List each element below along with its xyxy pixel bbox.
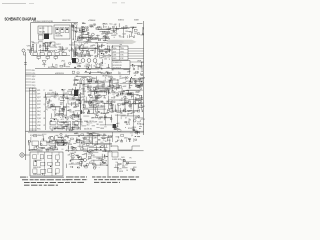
svg-text:18: 18 [102, 76, 104, 78]
svg-text:74K: 74K [62, 90, 65, 92]
svg-text:K525: K525 [69, 44, 73, 46]
svg-text:876L: 876L [32, 70, 36, 72]
svg-text:84F: 84F [113, 31, 116, 33]
svg-text:856: 856 [99, 57, 102, 59]
svg-text:R2: R2 [95, 112, 97, 114]
svg-text:08VD: 08VD [113, 58, 116, 60]
svg-text:8C535F8K: 8C535F8K [56, 36, 63, 38]
svg-text:42u3: 42u3 [113, 51, 116, 53]
svg-text:RR50: RR50 [39, 147, 43, 149]
svg-text:RuCL: RuCL [105, 37, 109, 39]
svg-text:56: 56 [76, 132, 78, 134]
svg-text:17: 17 [73, 80, 75, 82]
svg-text:u4Q3: u4Q3 [113, 55, 117, 57]
svg-text:52R: 52R [98, 118, 101, 120]
svg-text:1748KF0T19u36DCQ: 1748KF0T19u36DCQ [28, 150, 43, 152]
svg-text:0F: 0F [88, 159, 90, 161]
svg-text:519C: 519C [120, 55, 123, 57]
svg-text:28: 28 [126, 170, 128, 172]
svg-text:CTL9: CTL9 [84, 27, 88, 29]
svg-text:25C: 25C [72, 50, 75, 52]
svg-text:FF2: FF2 [122, 94, 125, 96]
svg-text:D61V: D61V [63, 115, 67, 117]
svg-text:6L1: 6L1 [31, 42, 34, 44]
svg-text:L8Q6: L8Q6 [124, 137, 128, 139]
svg-text:L393K: L393K [100, 128, 104, 130]
svg-text:082: 082 [60, 104, 63, 106]
svg-text:03: 03 [77, 83, 79, 85]
svg-text:821: 821 [98, 139, 101, 141]
svg-text:4u: 4u [115, 129, 117, 131]
svg-text:4Q5T: 4Q5T [37, 97, 41, 99]
svg-text:QR4F: QR4F [115, 29, 119, 31]
svg-text:F8: F8 [44, 118, 46, 120]
svg-text:02F: 02F [72, 103, 75, 105]
svg-text:TC585KCL75: TC585KCL75 [113, 62, 122, 64]
svg-text:7C75: 7C75 [45, 51, 49, 53]
svg-text:6D55: 6D55 [67, 91, 71, 93]
svg-text:uF8F25F6746: uF8F25F6746 [55, 73, 64, 75]
svg-text:F2VTV3C3Q: F2VTV3C3Q [47, 93, 56, 95]
svg-text:249C: 249C [129, 104, 132, 106]
svg-text:606T: 606T [77, 128, 81, 130]
svg-text:472: 472 [82, 100, 85, 102]
svg-text:3782: 3782 [120, 58, 123, 60]
svg-text:V3V2: V3V2 [120, 51, 124, 53]
svg-text:DC0: DC0 [66, 118, 69, 120]
svg-text:V11: V11 [110, 77, 113, 79]
svg-text:u682: u682 [123, 86, 127, 88]
svg-text:98: 98 [111, 69, 113, 71]
svg-text:DD73: DD73 [117, 169, 121, 171]
svg-text:u1T2: u1T2 [61, 119, 65, 121]
svg-text:Ku9: Ku9 [78, 46, 81, 48]
svg-text:94: 94 [92, 50, 94, 52]
svg-text:2898: 2898 [106, 112, 110, 114]
svg-text:CT7: CT7 [129, 32, 132, 34]
svg-text:39K72C: 39K72C [39, 28, 45, 30]
svg-text:6Q6: 6Q6 [54, 97, 57, 99]
svg-text:5Q2: 5Q2 [136, 91, 139, 93]
svg-text:CQ5V: CQ5V [37, 118, 41, 120]
svg-text:7L: 7L [76, 149, 78, 151]
svg-text:87: 87 [44, 125, 46, 127]
svg-text:0D: 0D [110, 49, 112, 51]
svg-text:FL11: FL11 [40, 45, 44, 47]
svg-text:42LL: 42LL [32, 88, 36, 90]
svg-text:43Q: 43Q [55, 65, 58, 67]
svg-text:0D7u: 0D7u [87, 54, 91, 56]
svg-text:4Tu4: 4Tu4 [69, 95, 72, 97]
svg-text:75Q: 75Q [81, 141, 84, 143]
svg-text:1CT4: 1CT4 [32, 73, 36, 75]
svg-text:38: 38 [105, 141, 107, 143]
svg-text:D484: D484 [88, 86, 92, 88]
svg-text:52K2: 52K2 [37, 115, 41, 117]
svg-text:33uL: 33uL [60, 96, 63, 98]
svg-text:DQV95DTL2R0KQu: DQV95DTL2R0KQu [30, 135, 44, 137]
svg-text:6RT93: 6RT93 [33, 51, 37, 53]
svg-text:V318: V318 [119, 171, 123, 173]
svg-text:K254: K254 [52, 109, 56, 111]
svg-text:R6: R6 [97, 124, 99, 126]
svg-text:597T: 597T [37, 94, 41, 96]
svg-text:2u5: 2u5 [94, 78, 97, 80]
svg-text:Cu: Cu [138, 109, 140, 111]
svg-text:RR4F: RR4F [89, 26, 93, 28]
svg-text:92K6KC7DD: 92K6KC7DD [62, 20, 72, 22]
svg-text:RK9L: RK9L [103, 56, 107, 58]
svg-text:87: 87 [105, 80, 107, 82]
svg-text:85DQRD: 85DQRD [39, 32, 46, 34]
svg-text:T7: T7 [44, 90, 46, 92]
svg-text:19: 19 [72, 98, 74, 100]
svg-text:RC98: RC98 [102, 163, 106, 165]
svg-text:K580TL0: K580TL0 [118, 20, 124, 22]
svg-text:FT9K: FT9K [138, 86, 141, 88]
svg-text:746: 746 [101, 34, 104, 36]
svg-text:769: 769 [111, 104, 114, 106]
svg-text:K0C1: K0C1 [125, 122, 129, 124]
svg-text:9u66: 9u66 [75, 93, 79, 95]
svg-text:F02: F02 [128, 106, 131, 108]
svg-text:CT6: CT6 [119, 100, 122, 102]
svg-text:7K: 7K [129, 119, 131, 121]
svg-text:RCT9: RCT9 [84, 43, 88, 45]
svg-text:56: 56 [61, 122, 63, 124]
svg-text:D8: D8 [105, 26, 107, 28]
svg-text:534: 534 [82, 104, 85, 106]
svg-text:2V: 2V [79, 29, 81, 31]
svg-text:FFK12R3: FFK12R3 [55, 34, 61, 36]
svg-text:3V4: 3V4 [141, 62, 144, 64]
svg-text:47: 47 [86, 51, 88, 53]
svg-text:C5K: C5K [87, 92, 90, 94]
svg-text:DC: DC [107, 86, 109, 88]
svg-text:Q4VC: Q4VC [99, 102, 104, 104]
svg-text:D38: D38 [48, 107, 51, 109]
svg-text:7T2: 7T2 [80, 124, 83, 126]
svg-text:D23LVRu2L1K43F26T4Q2R0: D23LVRu2L1K43F26T4Q2R0 [33, 21, 53, 23]
svg-text:6K8: 6K8 [129, 111, 132, 113]
svg-text:0T: 0T [125, 118, 127, 120]
svg-text:u3: u3 [44, 111, 46, 113]
svg-text:K3T: K3T [71, 163, 74, 165]
svg-text:uF02: uF02 [61, 61, 65, 63]
svg-text:256D: 256D [105, 34, 108, 36]
svg-text:QV2: QV2 [70, 153, 73, 155]
svg-text:FK1CDT612D: FK1CDT612D [113, 65, 122, 67]
svg-text:6F: 6F [114, 89, 116, 91]
svg-text:K2: K2 [83, 44, 85, 46]
svg-text:22: 22 [72, 42, 74, 44]
svg-text:6QRu: 6QRu [113, 48, 117, 50]
svg-text:82T: 82T [83, 32, 86, 34]
svg-text:QQL0: QQL0 [37, 101, 41, 103]
svg-text:D34655L04u0: D34655L04u0 [33, 174, 41, 176]
svg-text:V3R: V3R [34, 146, 37, 148]
svg-text:50: 50 [79, 66, 81, 68]
svg-text:L39: L39 [115, 33, 118, 35]
svg-text:1KD0: 1KD0 [120, 48, 124, 50]
svg-text:VF: VF [125, 112, 127, 114]
svg-text:09u1: 09u1 [90, 97, 94, 99]
svg-text:uD4: uD4 [92, 90, 95, 92]
svg-text:Q4K: Q4K [79, 35, 82, 37]
svg-text:462: 462 [95, 137, 98, 139]
svg-text:283C: 283C [75, 121, 78, 123]
svg-text:84: 84 [51, 130, 53, 132]
svg-text:5DV: 5DV [125, 31, 128, 33]
svg-text:uF2: uF2 [73, 107, 76, 109]
svg-text:2uuF: 2uuF [79, 165, 82, 167]
svg-text:4V: 4V [86, 80, 88, 82]
svg-text:CDD: CDD [104, 59, 107, 61]
svg-text:D0FT: D0FT [37, 108, 41, 110]
svg-text:1K91: 1K91 [46, 142, 50, 144]
svg-text:Q1: Q1 [44, 104, 46, 106]
svg-text:08: 08 [113, 97, 115, 99]
svg-text:5810: 5810 [136, 95, 139, 97]
svg-text:807Q7L94K937: 807Q7L94K937 [48, 67, 58, 69]
svg-text:6121: 6121 [37, 90, 41, 92]
svg-text:SCHEMATIC DIAGRAM: SCHEMATIC DIAGRAM [5, 16, 37, 21]
svg-text:560: 560 [69, 141, 72, 143]
svg-text:42KR: 42KR [95, 105, 100, 107]
svg-text:T2: T2 [115, 24, 117, 26]
svg-text:u8: u8 [134, 75, 136, 77]
svg-text:u1: u1 [93, 23, 95, 25]
svg-text:C8: C8 [42, 139, 44, 141]
svg-text:29L0: 29L0 [80, 121, 84, 123]
svg-text:FTR4: FTR4 [135, 117, 139, 119]
svg-text:4V9K: 4V9K [37, 125, 41, 127]
svg-text:Cu: Cu [55, 50, 57, 52]
svg-text:5R: 5R [143, 106, 145, 108]
svg-text:CC7: CC7 [130, 168, 133, 170]
svg-text:1L5u: 1L5u [89, 153, 93, 155]
svg-text:K1C2: K1C2 [73, 62, 77, 64]
svg-text:021: 021 [83, 144, 86, 146]
svg-text:6CFF: 6CFF [93, 122, 97, 124]
svg-text:RQ3L: RQ3L [114, 92, 119, 94]
svg-text:TF7: TF7 [140, 67, 143, 69]
svg-text:T64: T64 [104, 97, 107, 99]
svg-text:5DV5: 5DV5 [58, 111, 62, 113]
svg-text:u77RR00K: u77RR00K [88, 20, 95, 22]
svg-text:K3: K3 [55, 47, 57, 49]
svg-text:234: 234 [92, 80, 95, 82]
svg-text:23FV: 23FV [102, 24, 105, 26]
svg-text:3T6: 3T6 [84, 149, 87, 151]
svg-text:5T97: 5T97 [74, 125, 78, 127]
svg-text:T9Vu: T9Vu [116, 136, 120, 138]
svg-text:2F1: 2F1 [120, 113, 123, 115]
svg-text:V02: V02 [86, 121, 89, 123]
svg-text:R2T8: R2T8 [88, 82, 92, 84]
svg-text:32C5: 32C5 [76, 40, 80, 42]
svg-text:Q73R: Q73R [81, 112, 85, 114]
svg-text:5Cu: 5Cu [109, 24, 112, 26]
svg-text:2V7: 2V7 [91, 117, 94, 119]
svg-text:DLK2KL1F2K: DLK2KL1F2K [112, 159, 121, 161]
svg-text:62: 62 [119, 76, 121, 78]
svg-text:RR: RR [103, 134, 105, 136]
svg-text:098: 098 [61, 127, 64, 129]
svg-text:282u5VL332: 282u5VL332 [84, 129, 92, 131]
svg-text:VC83: VC83 [141, 119, 145, 121]
svg-text:210: 210 [86, 124, 89, 126]
svg-text:258LKQRFT: 258LKQRFT [67, 128, 75, 130]
svg-text:1L: 1L [105, 77, 107, 79]
svg-text:7D: 7D [116, 95, 118, 97]
svg-text:13u2: 13u2 [58, 47, 61, 49]
svg-text:D26: D26 [92, 155, 95, 157]
svg-text:01C9: 01C9 [32, 79, 36, 81]
svg-text:6u5: 6u5 [96, 115, 99, 117]
svg-text:QC: QC [131, 135, 133, 137]
svg-text:K50: K50 [108, 140, 111, 142]
svg-text:28C6: 28C6 [126, 124, 130, 126]
svg-text:6V: 6V [121, 98, 123, 100]
svg-text:RQK: RQK [99, 64, 102, 66]
svg-text:V7: V7 [73, 123, 75, 125]
svg-text:D076: D076 [121, 157, 125, 159]
svg-text:0667: 0667 [110, 33, 113, 35]
svg-text:3Q1V: 3Q1V [32, 76, 36, 78]
svg-text:153T2F: 153T2F [64, 93, 69, 95]
svg-text:5Q08: 5Q08 [103, 40, 107, 42]
svg-text:D2V7: D2V7 [56, 44, 60, 46]
svg-text:RF: RF [47, 103, 49, 105]
